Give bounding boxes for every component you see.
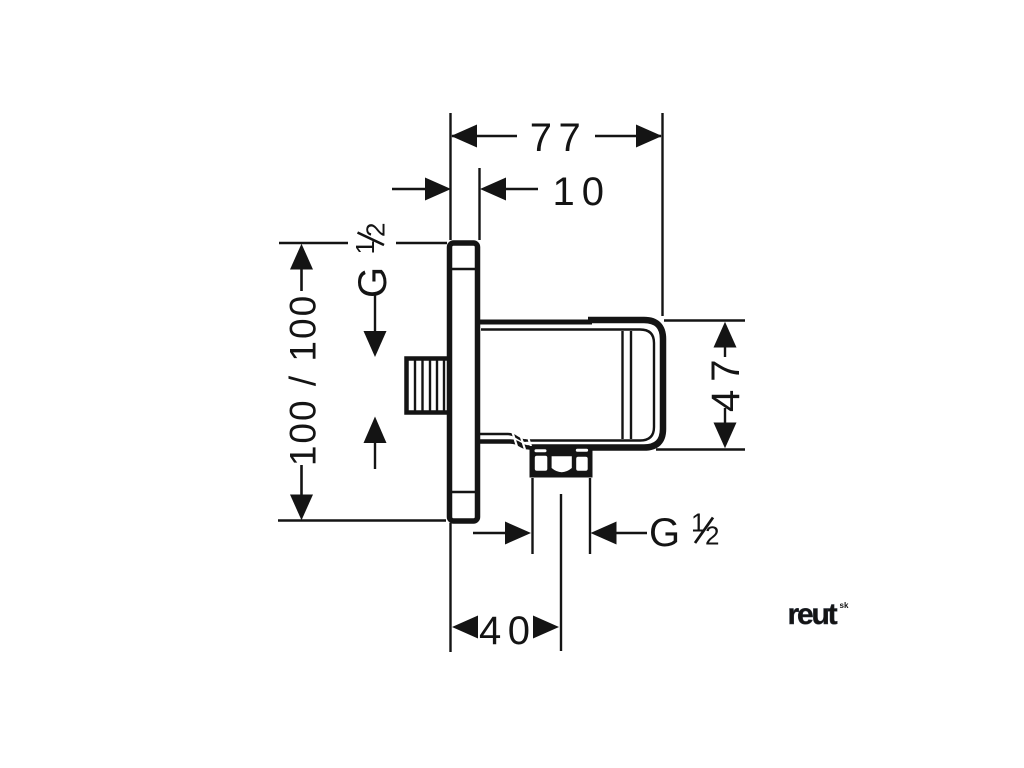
svg-text:10: 10 (553, 170, 612, 214)
body bottom ledge thick line with step (480, 442, 535, 448)
dimension G1/2 bottom: right arrowhead (591, 522, 617, 545)
svg-text:100 / 100: 100 / 100 (283, 294, 324, 466)
G1/2 label arrows at nipple: upper leader (374, 295, 376, 331)
nut facets (535, 456, 548, 471)
dimension 40: right arrowhead (533, 616, 559, 639)
G1/2 nipple: up arrowhead (364, 417, 387, 444)
dimension 10: left leader line (392, 188, 427, 191)
body top edge (480, 320, 592, 325)
G1/2 nipple: down arrowhead (364, 331, 387, 357)
dimension 47: down arrowhead (714, 423, 737, 449)
dimension G1/2 bottom: left arrowhead (505, 522, 531, 545)
dimension 10: right leader line (506, 188, 538, 191)
dimension text 47 (rotated) (704, 352, 748, 413)
plate inner top edge line (452, 268, 476, 270)
threaded nipple G1/2 (wall connection) (407, 359, 450, 413)
hex nut G1/2 outlet (530, 446, 593, 478)
escutcheon plate (side view) (450, 243, 478, 521)
svg-text:G: G (351, 267, 395, 298)
body top ledge and rounded cap outline (532, 320, 664, 448)
dimension 10: right arrowhead (480, 178, 506, 201)
G1/2 nipple: lower leader (374, 443, 376, 469)
dimension 40: left extension line (449, 523, 451, 652)
svg-text:2: 2 (705, 521, 719, 551)
nipple thread hatch lines (415, 361, 444, 411)
svg-text:G: G (649, 511, 680, 555)
dimension G1/2 bottom: left leader line (473, 532, 507, 535)
dimension 77: dimension line (452, 135, 517, 138)
dimension 10: left arrowhead (425, 178, 451, 201)
dimension G1/2 bottom: right leader line (616, 532, 647, 535)
dimension 77: left arrowhead (451, 125, 477, 148)
dimension 47: up arrowhead (714, 322, 737, 348)
dimension 47: dimension line (724, 346, 726, 357)
outlet extension line right (589, 478, 591, 554)
svg-text:sk: sk (840, 601, 849, 610)
step chamfer white tick marks (513, 433, 533, 450)
svg-text:reut: reut (788, 598, 838, 631)
dimension 77: right extension line (661, 113, 663, 316)
label G1/2 at nipple (rotated) (350, 223, 395, 298)
dimension 100/100: top arrowhead (290, 244, 313, 270)
dimension text 100/100 (rotated) (283, 294, 324, 466)
dimension 100/100: bottom extension line (278, 519, 446, 522)
dimension 47: bottom extension line (656, 448, 745, 450)
dimension 100/100: dimension line (300, 268, 303, 291)
body bottom ledge thin line with step (480, 434, 526, 441)
dimension 77: left extension line (449, 113, 451, 240)
dimension 10: extension line (478, 168, 480, 240)
dimension 77: right arrowhead (636, 125, 662, 148)
dimension 100/100: top extension line (279, 242, 348, 245)
dimension 100/100: bottom arrowhead (290, 495, 313, 521)
body cap joint double line (621, 331, 623, 439)
dimension 40: left arrowhead (452, 616, 478, 639)
nut flange highlight dashes (535, 449, 547, 452)
dimension 47: top extension line (664, 319, 745, 321)
outlet extension line left (531, 478, 533, 554)
plate inner bottom edge line (452, 491, 476, 493)
svg-text:77: 77 (530, 116, 588, 160)
body inner contour (481, 330, 654, 441)
svg-text:40: 40 (479, 609, 537, 653)
outlet center axis line (560, 494, 562, 651)
svg-text:2: 2 (361, 223, 391, 237)
svg-text:47: 47 (704, 352, 748, 413)
